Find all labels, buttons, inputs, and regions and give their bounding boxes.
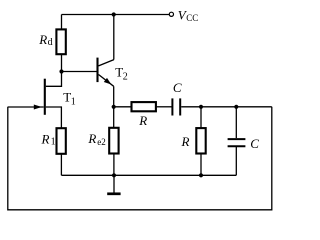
svg-text:R: R [41,131,50,146]
ground [107,175,120,194]
svg-text:2: 2 [123,72,128,83]
wire: top rail to Rd [61,15,63,30]
wire: gate of T1 from feedback loop [8,106,44,108]
junction: bottom rail / ground [112,173,116,177]
wire: node D to C shunt [235,107,237,138]
transistor T2 (NPN BJT) [98,58,114,87]
svg-text:R: R [138,113,147,128]
resistor Rd [56,29,65,54]
label T2 [115,64,128,82]
junction: top rail / T2 collector [112,12,116,16]
wire: node A to T2 base [62,71,97,73]
capacitor C (shunt) [228,139,246,146]
wire: node B to R [114,106,132,108]
wire: C to feedback right wire [181,106,272,108]
wire: Re2 to bottom rail [113,154,115,176]
wire: Rd to node A [61,54,63,71]
svg-text:e2: e2 [97,137,106,147]
wire: node C to R shunt [200,107,202,128]
svg-text:1: 1 [51,136,56,147]
svg-text:R: R [87,131,96,146]
wire: R1 to bottom rail [60,154,62,176]
wire: bottom rail [61,174,236,176]
wire: T2 emitter down to node B [113,86,115,107]
svg-text:CC: CC [186,13,198,23]
wire: feedback loop (left, bottom, right) [8,107,272,210]
resistor R1 [57,128,66,154]
node: Vcc terminal open circle [169,12,173,16]
junction: R shunt / bottom rail [199,173,203,177]
wire: T1 source to R1 [46,107,62,128]
capacitor C (series) [172,98,180,115]
wire: Vcc top rail [62,14,170,16]
wire: T2 collector to top rail [113,15,115,60]
node A: Rd / T1 drain / T2 base junction [59,69,63,73]
node C: shunt R junction [199,105,203,109]
svg-text:C: C [250,136,259,151]
label Re2 [87,131,105,147]
transistor T1 (JFET) [34,79,45,115]
svg-text:d: d [48,37,53,48]
label R (series) [138,113,147,128]
wire: C shunt to bottom rail [235,146,237,175]
label Vcc [178,8,199,23]
label T1 [63,89,76,107]
svg-text:1: 1 [71,96,76,107]
wire: Re2 column [113,107,115,128]
svg-text:R: R [181,134,190,149]
node D: shunt C junction [234,105,238,109]
resistor Re2 [109,128,118,154]
wire: R to C [156,106,172,108]
svg-text:R: R [38,32,47,47]
label C (series) [173,80,182,95]
label R1 [41,131,56,147]
label C (shunt) [250,136,259,151]
wire: T1 drain to node A [46,72,62,87]
svg-text:C: C [173,80,182,95]
wire: R shunt to bottom rail [200,154,202,176]
label R (shunt) [181,134,190,149]
resistor R (shunt, vertical) [196,128,205,153]
resistor R (series, horizontal) [132,102,156,111]
label Rd [38,32,52,48]
node B: emitter output junction [112,105,116,109]
